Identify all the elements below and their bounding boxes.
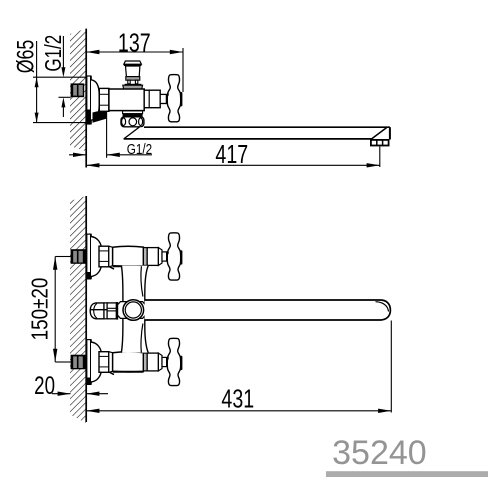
svg-text:150±20: 150±20 (28, 278, 53, 341)
dia65 leader lines (33, 76, 91, 78)
inner column curve upper (141, 266, 143, 296)
dimension 431 extension line (390, 321, 392, 413)
dimension 20 (wall thickness) (52, 393, 71, 395)
handle hub black cap (top view) (180, 92, 182, 106)
aerator (top view) (371, 140, 389, 146)
spout joint collar octagon (117, 302, 146, 319)
wall hatching (top view) (70, 29, 86, 152)
body column between valves (121, 266, 148, 353)
wall hatching (bottom view) (70, 196, 86, 423)
svg-text:137: 137 (118, 28, 151, 57)
dimension 137 extension line (182, 48, 184, 92)
spout nut knurled (top view) (121, 117, 144, 127)
spout tube (bottom view) (145, 300, 391, 320)
svg-text:Ø65: Ø65 (13, 40, 39, 74)
G1/2 arrow lower (top view) (62, 103, 64, 117)
supply pipe in wall (top view) (71, 83, 85, 97)
handle stem (top view) (160, 94, 166, 103)
svg-text:35240: 35240 (332, 434, 427, 472)
gray underline bar (326, 471, 488, 477)
lower valve group (71, 338, 183, 385)
dimension 417 line (86, 164, 380, 166)
spout tube (top view) (124, 127, 390, 139)
G1/2 extension line (spout thread, top view) (106, 111, 108, 157)
dimension 137 line (86, 51, 183, 53)
spout end chamfer (top view) (372, 128, 387, 139)
diverter knob (top view) (123, 61, 143, 89)
svg-text:20: 20 (34, 371, 55, 399)
bonnet ring (top view) (144, 90, 160, 108)
cross handle side view (top view) (167, 75, 180, 122)
wall face line (bottom view) (85, 196, 87, 422)
flange dome (top view) (91, 80, 99, 120)
diverter assembly (bottom view) (90, 302, 117, 320)
shadow wedge under nut (top view) (93, 111, 107, 122)
hex nut (top view) (99, 88, 109, 111)
dia65 dimension line (36, 41, 38, 123)
G1/2 dimension (top view bottom) (69, 154, 86, 156)
flange plate (top view) (87, 76, 91, 124)
G1/2 leader lines (pipe diameter, top view) (59, 96, 71, 98)
wall face line (top view) (85, 29, 87, 168)
svg-text:G1/2: G1/2 (42, 35, 67, 72)
G1/2 arrow upper (top view) (62, 36, 64, 72)
faucet body (top view) (109, 89, 144, 111)
dimension 417 extension line (379, 147, 381, 168)
150±20 dimension (54, 257, 56, 363)
svg-text:431: 431 (221, 384, 254, 413)
svg-text:417: 417 (215, 140, 248, 169)
dimension 431 line (86, 410, 391, 412)
flange shadow black (top view) (87, 110, 91, 125)
inner column curve lower (141, 324, 143, 353)
upper valve group (71, 233, 183, 280)
svg-text:G1/2: G1/2 (127, 141, 152, 158)
spout collar (top view) (123, 111, 143, 114)
spout joint circles (123, 300, 144, 321)
